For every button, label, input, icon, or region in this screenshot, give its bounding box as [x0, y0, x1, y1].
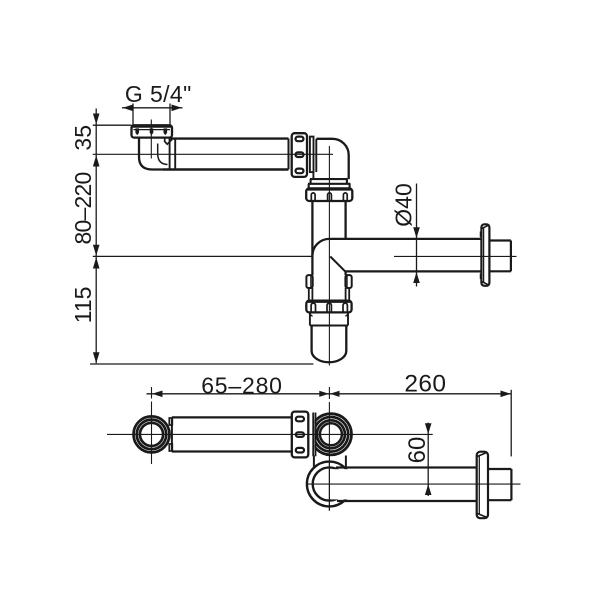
outlet pipe bottom edge	[345, 270, 481, 272]
nut at pipe right end	[292, 133, 307, 177]
arrow right 260	[501, 391, 511, 398]
outlet pipe top edge	[329, 238, 481, 240]
svg-text:260: 260	[404, 370, 446, 397]
downtube left edge	[311, 201, 313, 256]
outlet stub bottom edge	[489, 270, 511, 272]
arrow up under pipe-axis ref	[93, 155, 100, 166]
inlet elbow outer profile	[139, 138, 163, 170]
arrow down onto outlet-axis ref	[93, 245, 100, 256]
ref line outlet axis (extends to trap)	[93, 255, 313, 257]
inlet nut tab 1	[135, 128, 139, 135]
lower elbow inner arc circle	[313, 467, 346, 500]
arrow down onto upper axis	[425, 423, 432, 434]
tee miter diagonal	[330, 257, 345, 272]
big ring r3	[317, 420, 345, 448]
extension line left (ring axis)	[151, 387, 153, 410]
svg-text:G 5/4": G 5/4"	[125, 81, 192, 107]
extension line G5/4 right	[169, 104, 171, 125]
left dimension chain vertical line	[95, 109, 97, 364]
outlet wall flange	[481, 224, 489, 285]
bottom outlet centerline	[307, 483, 521, 485]
arrow up under outlet bottom edge	[413, 272, 420, 283]
upper nut slot 2	[328, 193, 332, 201]
cup collar	[310, 312, 348, 325]
bottom view nut	[292, 412, 309, 458]
arrow left G5/4	[123, 105, 133, 112]
big ring outer	[310, 414, 351, 455]
elbow flange edge	[315, 139, 317, 172]
flange lip tick bottom	[480, 274, 482, 280]
bottom vertical centerline lower part	[328, 460, 330, 511]
downtube silhouette left	[313, 456, 315, 468]
tube left edge below tee	[311, 256, 313, 275]
ref line cup bottom	[90, 363, 313, 365]
big ring bore	[320, 423, 342, 445]
inlet nut flange	[132, 125, 173, 137]
flange lip tick top	[480, 232, 482, 238]
inlet nut tab 3	[164, 128, 168, 135]
upper nut slot 3	[343, 193, 347, 201]
leader line for d40	[416, 184, 418, 287]
left lug stem	[309, 288, 313, 301]
ref line pipe axis (centerline through pipe to elbow center)	[93, 153, 333, 155]
side view vertical centerline	[328, 146, 330, 366]
inlet ring outer circle	[134, 416, 170, 452]
extension line right (stub end)	[510, 390, 512, 457]
tee outer corner arc	[312, 239, 329, 256]
right bayonet lug	[345, 275, 351, 288]
dimension line G 5/4	[122, 107, 183, 109]
svg-text:65–280: 65–280	[201, 372, 283, 398]
nut slot bar 3	[296, 169, 304, 174]
inlet ring middle circle	[137, 420, 167, 450]
bell step 2	[308, 184, 350, 188]
inlet centerline vertical	[150, 120, 152, 159]
outlet stub end	[510, 241, 512, 272]
pipe sleeve end vertical 2	[174, 139, 176, 170]
arrow down onto outlet top edge	[413, 227, 420, 238]
bottom view horizontal centerline	[107, 433, 433, 435]
big ring r2	[314, 417, 349, 452]
pipe right end	[288, 139, 290, 170]
tube right edge below outlet	[344, 271, 346, 275]
bottom dims line	[147, 393, 512, 395]
arrow down onto nut-top ref	[93, 114, 100, 125]
svg-text:35: 35	[70, 125, 96, 151]
trap nut slot 1	[311, 303, 315, 312]
inlet nut top edge thick	[132, 125, 172, 128]
trap nut top edge thick	[307, 300, 351, 303]
left bayonet lug	[306, 275, 312, 288]
bottom nut slot 2	[296, 432, 304, 437]
extension line G5/4 left	[132, 104, 134, 125]
side view outlet centerline	[394, 255, 517, 257]
arrow right G5/4	[172, 105, 182, 112]
white mask of outlet pipe interior	[331, 469, 477, 499]
pipe sleeve end vertical 1	[169, 139, 171, 170]
upper coupling nut top edge thick	[307, 188, 352, 191]
upper coupling nut	[306, 188, 352, 201]
elbow body turning down	[316, 139, 348, 179]
extension line center (elbow axis)	[328, 387, 330, 409]
trap coupling nut	[306, 301, 351, 313]
right lug inner line	[346, 275, 348, 288]
svg-text:60: 60	[404, 437, 431, 464]
bottom stub top edge	[488, 468, 511, 470]
inlet ring inner circle	[140, 423, 163, 446]
arrow left 65-280	[152, 391, 162, 398]
right lug stem	[346, 288, 350, 301]
upper elbow top-view rings (clipped)	[310, 414, 351, 455]
nut slot bar 2	[296, 152, 304, 157]
bottom nut slot 3	[296, 448, 304, 453]
inlet elbow inner curve	[158, 144, 168, 165]
bottom nut slot 1	[296, 417, 304, 422]
bottom pipe top edge	[172, 416, 292, 418]
collar edges	[313, 413, 315, 457]
svg-text:Ø40: Ø40	[390, 183, 416, 226]
bottom stub end	[510, 469, 512, 500]
svg-text:80–220: 80–220	[70, 173, 96, 245]
arrow pair at center extension	[319, 391, 339, 397]
arrow up under outlet-axis ref	[93, 257, 100, 268]
outlet stub top edge	[489, 239, 511, 241]
elbow left profile to bell	[312, 172, 314, 179]
arrow up under outlet axis	[425, 484, 432, 495]
inlet elbow flap below flange	[165, 138, 172, 144]
arrow down onto cup-bottom ref	[93, 352, 100, 363]
inlet nut inner washer line	[134, 129, 171, 131]
rim bump top	[169, 418, 172, 425]
nut slot bar 1	[296, 137, 304, 142]
left lug inner line	[310, 275, 312, 288]
bottom pipe bottom edge	[172, 450, 292, 452]
bottom outlet pipe top edge	[336, 466, 477, 468]
inlet nut tab 2	[150, 128, 154, 135]
bottom flange	[477, 452, 488, 519]
downtube right edge	[344, 201, 346, 239]
rim bump bottom	[169, 444, 172, 451]
bell step 1	[310, 179, 348, 184]
bottom stub bottom edge	[488, 499, 511, 501]
flange inner line	[483, 228, 485, 282]
pipe bottom edge	[163, 168, 289, 170]
dim 60 line	[427, 423, 429, 496]
lower elbow outer circle	[307, 462, 352, 507]
cup body	[312, 326, 347, 363]
downtube silhouette right	[345, 456, 347, 469]
elbow washer ring	[310, 137, 314, 173]
ref line top of nut	[93, 124, 132, 126]
bottom flange inner line	[478, 456, 480, 515]
upper nut slot 1	[311, 193, 315, 201]
pipe sleeve top edge	[169, 137, 289, 139]
trap nut slot 2	[327, 303, 331, 312]
sleeve end edge	[171, 417, 173, 451]
bottom outlet pipe bottom edge	[337, 500, 477, 502]
svg-text:115: 115	[70, 287, 96, 324]
trap nut slot 3	[343, 303, 347, 312]
